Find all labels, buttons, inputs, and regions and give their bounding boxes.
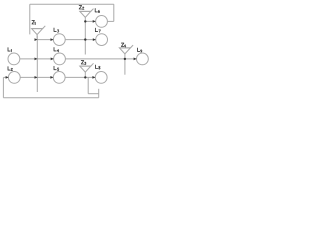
wire row C middle segment L3 to L7	[65, 39, 96, 41]
label Z4	[121, 43, 125, 47]
wire row D left segment L1 to L4	[20, 58, 54, 60]
wire right riser from top bus down to L6	[113, 4, 115, 21]
wire hook right vertical	[98, 89, 100, 98]
label L9	[138, 48, 142, 52]
junction dot row B	[84, 20, 86, 22]
wire row E corner to L2	[3, 76, 8, 78]
wire column under Z2	[84, 17, 86, 54]
wire column under Z4	[124, 54, 126, 75]
lamp L2	[8, 72, 20, 84]
lamp L1	[8, 53, 20, 65]
label L1	[8, 48, 12, 52]
zener diode Z1	[32, 26, 46, 40]
wire left edge down	[2, 77, 4, 97]
arrow into L2	[6, 76, 9, 79]
wire left stub from top bus down beside Z1	[29, 4, 31, 34]
wire row B from Z2 stem to L6	[85, 20, 95, 22]
wire row E L2 to L8	[20, 76, 95, 78]
zener diode Z2	[80, 9, 94, 18]
label L2	[8, 67, 13, 71]
label L7	[95, 28, 100, 32]
label L8	[96, 65, 101, 69]
arrow into L3	[51, 38, 54, 41]
junction dot row C	[84, 38, 86, 40]
wire top bus	[30, 3, 114, 5]
lamp L5	[53, 72, 65, 84]
arrow row C at column 37	[35, 38, 38, 41]
zener diode Z3	[80, 63, 94, 77]
label Z3	[81, 61, 86, 65]
label L4	[54, 48, 59, 52]
arrow into L7	[93, 38, 96, 41]
junction dot row D Z4	[124, 58, 126, 60]
arrow into L9	[134, 58, 137, 61]
arrow into L5	[50, 76, 53, 79]
wire hook vertical from row E	[87, 77, 89, 93]
lamp L4	[54, 53, 66, 65]
label L5	[54, 66, 59, 70]
lamp L6	[96, 16, 108, 28]
arrow into L4	[51, 58, 54, 61]
wire L6 right to riser	[107, 20, 113, 22]
arrow row D at column 37	[35, 58, 38, 61]
lamp L7	[96, 34, 108, 46]
zener diode Z4	[119, 45, 133, 54]
lamp L3	[53, 34, 65, 46]
label Z2	[79, 6, 84, 10]
junction dot row E	[84, 76, 86, 78]
label Z1	[32, 21, 35, 25]
wire row D right segment L4 to L9	[65, 58, 136, 60]
arrow row E at column 37	[35, 76, 38, 79]
label L6	[95, 9, 100, 13]
wire column under Z1 apex down	[36, 36, 38, 93]
wire bottom bus	[3, 97, 98, 99]
arrow into L8	[92, 76, 95, 79]
arrow into L6	[93, 20, 96, 23]
wire hook horizontal	[88, 93, 99, 95]
label L3	[54, 28, 59, 32]
lamp L8	[95, 72, 107, 84]
wire row C left segment Z1 to L3	[37, 39, 53, 41]
lamp L9	[137, 53, 149, 65]
